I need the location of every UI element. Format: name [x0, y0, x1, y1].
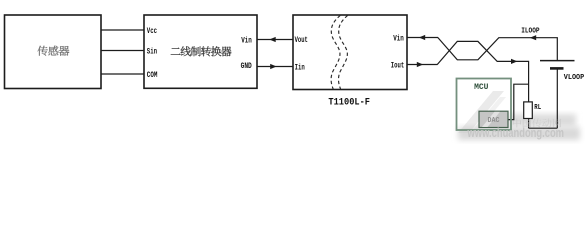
- svg-text:Vin: Vin: [241, 37, 252, 46]
- svg-text:Vin: Vin: [393, 35, 404, 44]
- svg-text:VLOOP: VLOOP: [564, 74, 585, 82]
- svg-text:www.chuandong.com: www.chuandong.com: [467, 126, 564, 140]
- svg-text:DAC: DAC: [488, 117, 501, 125]
- svg-text:Iin: Iin: [295, 63, 305, 72]
- svg-text:ILOOP: ILOOP: [521, 28, 540, 36]
- svg-text:Vout: Vout: [295, 36, 308, 45]
- svg-text:RL: RL: [534, 104, 541, 112]
- svg-text:Iout: Iout: [391, 62, 405, 71]
- svg-text:COM: COM: [147, 71, 158, 80]
- svg-text:T1100L-F: T1100L-F: [328, 97, 370, 108]
- svg-text:GND: GND: [241, 62, 252, 71]
- svg-text:Vcc: Vcc: [147, 27, 157, 36]
- svg-text:MCU: MCU: [474, 82, 488, 92]
- svg-text:Sin: Sin: [147, 48, 157, 57]
